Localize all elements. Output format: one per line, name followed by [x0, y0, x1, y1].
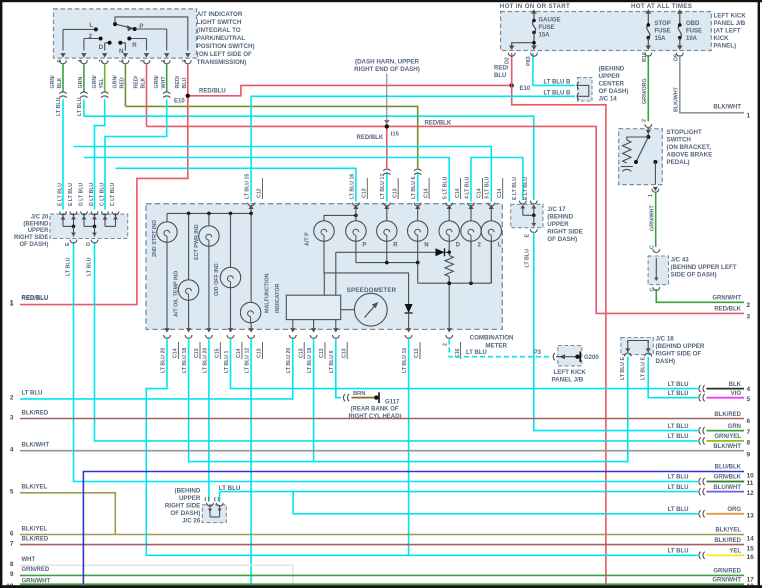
- svg-text:BLU/BLK: BLU/BLK: [715, 465, 742, 471]
- svg-text:BLK/YEL: BLK/YEL: [22, 526, 48, 532]
- svg-text:LT BLU: LT BLU: [668, 434, 689, 440]
- svg-text:7: 7: [747, 429, 751, 436]
- svg-text:E10: E10: [174, 99, 185, 105]
- svg-text:C13: C13: [341, 348, 347, 358]
- svg-text:RIGHT SIDE: RIGHT SIDE: [165, 502, 200, 509]
- svg-text:OF DASH): OF DASH): [19, 242, 48, 248]
- svg-text:7: 7: [99, 59, 105, 62]
- svg-text:GRN/: GRN/: [154, 75, 160, 89]
- svg-text:RED/BLK: RED/BLK: [425, 121, 452, 127]
- svg-text:J/C 17: J/C 17: [547, 206, 566, 213]
- svg-text:FUSE: FUSE: [655, 29, 671, 35]
- svg-text:OF DASH): OF DASH): [170, 510, 200, 517]
- svg-text:(DASH HARN, UPPER: (DASH HARN, UPPER: [355, 59, 419, 66]
- svg-text:LT BLU: LT BLU: [65, 257, 71, 276]
- svg-text:RIGHT SIDE: RIGHT SIDE: [14, 235, 48, 241]
- svg-text:J/C 20: J/C 20: [31, 214, 49, 220]
- svg-text:UPPER: UPPER: [179, 495, 201, 502]
- svg-text:GAUGE: GAUGE: [539, 18, 561, 24]
- svg-text:E LT BLU: E LT BLU: [523, 177, 529, 200]
- svg-text:ABOVE BRAKE: ABOVE BRAKE: [667, 152, 713, 159]
- svg-text:LT BLU: LT BLU: [56, 97, 62, 116]
- svg-text:PANEL J/B: PANEL J/B: [552, 377, 584, 384]
- svg-text:C13: C13: [362, 188, 368, 198]
- svg-text:RED/: RED/: [175, 75, 181, 88]
- svg-text:GRN/WHT: GRN/WHT: [712, 577, 741, 583]
- svg-text:LT BLU 19: LT BLU 19: [307, 348, 313, 373]
- svg-text:LT BLU: LT BLU: [668, 475, 689, 481]
- svg-text:D: D: [456, 242, 461, 248]
- svg-text:C13: C13: [319, 348, 325, 358]
- svg-text:OF DASH): OF DASH): [547, 236, 577, 243]
- svg-text:C13: C13: [257, 348, 263, 358]
- svg-text:B10: B10: [642, 52, 648, 62]
- svg-text:GRN/: GRN/: [92, 75, 98, 89]
- svg-text:LT BLU: LT BLU: [219, 485, 241, 492]
- svg-text:RIGHT SIDE OF: RIGHT SIDE OF: [656, 351, 702, 358]
- svg-text:RED/BLU: RED/BLU: [22, 296, 49, 302]
- svg-text:DASH): DASH): [656, 358, 676, 365]
- svg-text:LT BLU 20: LT BLU 20: [160, 348, 166, 373]
- svg-text:13: 13: [747, 512, 755, 519]
- svg-text:(INTEGRAL TO: (INTEGRAL TO: [197, 27, 241, 34]
- svg-text:LT BLU: LT BLU: [86, 257, 92, 276]
- svg-text:BLK/RED: BLK/RED: [714, 538, 741, 544]
- svg-text:G200: G200: [584, 355, 599, 361]
- svg-text:LT BLU 15: LT BLU 15: [245, 174, 251, 199]
- svg-text:C15: C15: [215, 348, 221, 358]
- svg-text:LT BLU: LT BLU: [668, 424, 689, 430]
- svg-text:C12: C12: [257, 188, 263, 198]
- svg-text:SWITCH: SWITCH: [667, 137, 692, 144]
- svg-text:I15: I15: [391, 132, 400, 138]
- svg-text:STOPLIGHT: STOPLIGHT: [667, 129, 703, 136]
- svg-text:VIO: VIO: [731, 391, 742, 397]
- svg-text:ORG: ORG: [727, 507, 741, 513]
- svg-text:C13: C13: [392, 188, 398, 198]
- svg-text:R: R: [393, 242, 398, 248]
- svg-text:5: 5: [120, 59, 126, 62]
- svg-text:COMBINATION: COMBINATION: [470, 335, 514, 342]
- svg-text:3 LT BLU: 3 LT BLU: [485, 176, 491, 199]
- svg-text:8: 8: [10, 561, 14, 568]
- svg-text:LT BLU: LT BLU: [524, 249, 530, 268]
- svg-text:BLK/WHT: BLK/WHT: [673, 86, 679, 112]
- svg-text:CENTER: CENTER: [599, 80, 625, 87]
- svg-text:RED/: RED/: [494, 66, 509, 72]
- svg-text:(BEHIND: (BEHIND: [599, 65, 625, 72]
- svg-text:HOT IN ON OR START: HOT IN ON OR START: [500, 3, 570, 10]
- svg-text:9: 9: [747, 452, 751, 459]
- svg-text:14: 14: [747, 536, 755, 543]
- svg-text:1: 1: [161, 59, 167, 62]
- svg-text:G117: G117: [385, 399, 400, 405]
- svg-text:GRN: GRN: [728, 424, 741, 430]
- svg-text:(ON LEFT SIDE OF: (ON LEFT SIDE OF: [197, 51, 252, 58]
- svg-text:4 LT BLU: 4 LT BLU: [464, 176, 470, 199]
- svg-text:LT BLU 20: LT BLU 20: [202, 348, 208, 373]
- svg-text:SIDE OF DASH): SIDE OF DASH): [671, 272, 717, 279]
- svg-text:16: 16: [747, 554, 755, 561]
- svg-text:LEFT KICK: LEFT KICK: [554, 369, 587, 376]
- svg-text:GRN/RED: GRN/RED: [713, 569, 741, 575]
- svg-text:E LT BLU: E LT BLU: [57, 183, 63, 206]
- svg-text:LT BLU: LT BLU: [22, 391, 43, 397]
- svg-text:P: P: [362, 242, 366, 248]
- svg-text:BLK/WHT: BLK/WHT: [22, 443, 50, 449]
- svg-text:LT BLU B: LT BLU B: [544, 80, 572, 86]
- svg-text:MALFUNCTION: MALFUNCTION: [265, 273, 271, 313]
- svg-text:3: 3: [10, 414, 14, 421]
- svg-text:D LT BLU: D LT BLU: [78, 183, 84, 206]
- svg-text:1: 1: [648, 194, 654, 197]
- svg-text:10: 10: [747, 473, 755, 480]
- svg-text:GRN/WHT: GRN/WHT: [649, 205, 655, 231]
- svg-text:OF DASH): OF DASH): [599, 88, 629, 95]
- svg-text:C14: C14: [423, 188, 429, 198]
- svg-text:ECT PWR IND: ECT PWR IND: [194, 224, 200, 260]
- svg-text:OBD: OBD: [686, 21, 700, 27]
- svg-text:UPPER: UPPER: [28, 228, 49, 234]
- svg-text:15A: 15A: [539, 33, 551, 39]
- svg-text:6: 6: [57, 59, 63, 62]
- svg-text:5: 5: [747, 396, 751, 403]
- svg-text:GRN/: GRN/: [50, 75, 56, 89]
- svg-text:LT BLU E: LT BLU E: [620, 357, 626, 380]
- svg-text:C13: C13: [414, 348, 420, 358]
- svg-text:GRN/BLK: GRN/BLK: [714, 475, 742, 481]
- svg-text:LT BLU: LT BLU: [77, 97, 83, 116]
- svg-text:LT BLU: LT BLU: [466, 350, 487, 356]
- svg-text:1: 1: [747, 113, 751, 120]
- svg-text:GRN/WHT: GRN/WHT: [712, 295, 741, 301]
- svg-text:(BEHIND: (BEHIND: [175, 487, 201, 494]
- svg-text:BLK/RED: BLK/RED: [22, 536, 49, 542]
- svg-text:BRN: BRN: [353, 391, 366, 397]
- svg-text:BLK/RED: BLK/RED: [714, 412, 741, 418]
- svg-text:UPPER: UPPER: [599, 73, 621, 80]
- svg-text:E10: E10: [520, 86, 531, 92]
- svg-text:RIGHT END OF DASH): RIGHT END OF DASH): [354, 66, 420, 73]
- svg-text:L: L: [89, 22, 93, 29]
- svg-text:LT BLU: LT BLU: [668, 382, 689, 388]
- svg-text:D LT BLU: D LT BLU: [89, 183, 95, 206]
- svg-text:FUSE: FUSE: [539, 25, 555, 31]
- svg-text:BLK/YEL: BLK/YEL: [22, 485, 48, 491]
- svg-text:5: 5: [10, 489, 14, 496]
- svg-text:WHT: WHT: [22, 557, 36, 563]
- svg-text:1: 1: [10, 300, 14, 307]
- svg-text:PANEL): PANEL): [714, 43, 737, 50]
- svg-text:2: 2: [10, 395, 14, 402]
- svg-text:PANEL J/B: PANEL J/B: [714, 20, 746, 27]
- svg-text:BLK/WHT: BLK/WHT: [713, 444, 741, 450]
- svg-text:GRN/RED: GRN/RED: [22, 567, 50, 573]
- svg-text:LT BLU E: LT BLU E: [640, 357, 646, 380]
- svg-text:RED/BLK: RED/BLK: [357, 135, 384, 141]
- svg-text:INDICATOR: INDICATOR: [275, 283, 281, 313]
- svg-text:(BEHIND: (BEHIND: [23, 221, 49, 227]
- svg-text:BLK/YEL: BLK/YEL: [715, 528, 741, 534]
- svg-text:RED/BLU: RED/BLU: [199, 88, 226, 94]
- svg-text:A/T INDICATOR: A/T INDICATOR: [197, 11, 243, 18]
- svg-text:TRANSMISSION): TRANSMISSION): [197, 59, 247, 66]
- svg-text:A/T P: A/T P: [305, 232, 311, 246]
- svg-text:STOP: STOP: [655, 21, 671, 27]
- svg-text:C14: C14: [173, 348, 179, 358]
- svg-text:E LT BLU: E LT BLU: [68, 183, 74, 206]
- svg-text:LT BLU 18: LT BLU 18: [182, 348, 188, 373]
- svg-text:FUSE: FUSE: [686, 29, 702, 35]
- svg-text:C14: C14: [236, 348, 242, 358]
- svg-text:BLK/WHT: BLK/WHT: [713, 104, 741, 110]
- svg-text:2: 2: [89, 33, 93, 40]
- svg-text:LIGHT SWITCH: LIGHT SWITCH: [197, 19, 242, 26]
- svg-text:LT BLU B: LT BLU B: [544, 91, 572, 97]
- svg-text:GRN/ORG: GRN/ORG: [642, 78, 648, 104]
- svg-text:(ON BRACKET,: (ON BRACKET,: [667, 144, 712, 151]
- svg-text:J/C 43: J/C 43: [671, 257, 690, 264]
- svg-text:2ND STRT IND: 2ND STRT IND: [152, 220, 158, 257]
- svg-text:BLU/WHT: BLU/WHT: [713, 485, 741, 491]
- svg-text:LT BLU 20: LT BLU 20: [286, 348, 292, 373]
- svg-text:C13: C13: [298, 348, 304, 358]
- svg-text:C: C: [650, 288, 656, 292]
- svg-text:LT BLU 17: LT BLU 17: [380, 174, 386, 199]
- svg-text:D: D: [86, 242, 92, 246]
- svg-text:RED/BLK: RED/BLK: [714, 306, 741, 312]
- svg-text:LT BLU 12: LT BLU 12: [245, 348, 251, 373]
- svg-text:15A: 15A: [655, 36, 667, 42]
- svg-text:PARK/NEUTRAL: PARK/NEUTRAL: [197, 35, 246, 42]
- svg-text:6: 6: [10, 530, 14, 537]
- svg-text:LEFT KICK: LEFT KICK: [714, 13, 747, 20]
- svg-text:(BEHIND UPPER: (BEHIND UPPER: [656, 343, 705, 350]
- svg-text:11: 11: [747, 480, 754, 487]
- svg-text:3: 3: [182, 59, 188, 62]
- svg-text:YEL: YEL: [729, 549, 741, 555]
- svg-text:LT BLU: LT BLU: [668, 549, 689, 555]
- svg-text:BLU: BLU: [494, 73, 506, 79]
- svg-text:LT BLU 1: LT BLU 1: [224, 351, 230, 373]
- svg-text:LT BLU 6: LT BLU 6: [329, 351, 335, 373]
- svg-text:J/C 14: J/C 14: [599, 95, 618, 102]
- svg-text:C LT BLU: C LT BLU: [99, 183, 105, 206]
- svg-text:KICK: KICK: [714, 35, 730, 42]
- svg-text:3: 3: [747, 314, 751, 321]
- svg-text:C14: C14: [477, 188, 483, 198]
- svg-text:PEDAL): PEDAL): [667, 159, 690, 166]
- svg-text:D: D: [99, 44, 104, 51]
- svg-text:LT BLU: LT BLU: [668, 507, 689, 513]
- svg-text:2: 2: [747, 302, 751, 309]
- svg-text:J/C 18: J/C 18: [656, 336, 675, 343]
- svg-text:N: N: [424, 242, 428, 248]
- svg-text:4: 4: [747, 386, 751, 393]
- svg-text:A/T OIL TEMP IND: A/T OIL TEMP IND: [174, 271, 180, 317]
- svg-text:7: 7: [10, 540, 14, 547]
- svg-text:LT BLU 15: LT BLU 15: [402, 348, 408, 373]
- svg-text:LT BLU: LT BLU: [668, 485, 689, 491]
- svg-text:P: P: [139, 23, 143, 30]
- svg-text:BLK: BLK: [729, 382, 742, 388]
- svg-text:LT BLU 6: LT BLU 6: [411, 177, 417, 199]
- svg-text:METER: METER: [485, 342, 507, 349]
- svg-text:10A: 10A: [686, 36, 698, 42]
- svg-text:C14: C14: [455, 188, 461, 198]
- svg-text:J/C 26: J/C 26: [182, 517, 201, 524]
- svg-text:RIGHT SIDE: RIGHT SIDE: [547, 228, 582, 235]
- svg-text:15: 15: [747, 546, 755, 553]
- svg-text:L: L: [498, 242, 502, 248]
- svg-text:(BEHIND UPPER LEFT: (BEHIND UPPER LEFT: [671, 264, 737, 271]
- svg-text:BLK/RED: BLK/RED: [22, 410, 49, 416]
- svg-text:P83: P83: [526, 56, 532, 66]
- svg-text:D9: D9: [673, 54, 679, 61]
- svg-text:5 LT BLU: 5 LT BLU: [443, 176, 449, 199]
- svg-text:LT BLU: LT BLU: [668, 391, 689, 397]
- svg-text:2: 2: [642, 119, 648, 122]
- svg-text:4: 4: [10, 447, 14, 454]
- svg-text:(BEHIND: (BEHIND: [547, 213, 573, 220]
- svg-text:POSITION SWITCH): POSITION SWITCH): [197, 43, 255, 50]
- svg-text:6: 6: [747, 418, 751, 425]
- svg-text:9: 9: [10, 571, 14, 578]
- svg-text:2: 2: [443, 343, 449, 346]
- svg-text:LT BLU 16: LT BLU 16: [349, 174, 355, 199]
- svg-text:UPPER: UPPER: [547, 221, 569, 228]
- svg-text:8: 8: [747, 439, 751, 446]
- svg-text:R: R: [132, 42, 137, 49]
- svg-text:C14: C14: [497, 188, 503, 198]
- svg-text:C: C: [650, 245, 656, 249]
- svg-text:GRN/YEL: GRN/YEL: [714, 434, 741, 440]
- svg-text:SPEEDOMETER: SPEEDOMETER: [347, 287, 397, 294]
- svg-text:E: E: [65, 242, 71, 246]
- svg-text:D2: D2: [505, 57, 511, 64]
- svg-text:RED/: RED/: [134, 75, 140, 88]
- svg-text:(REAR BANK OF: (REAR BANK OF: [351, 407, 399, 413]
- svg-text:C13: C13: [194, 348, 200, 358]
- svg-text:GRN/: GRN/: [113, 75, 119, 89]
- svg-text:12: 12: [747, 490, 755, 497]
- svg-text:(AT LEFT: (AT LEFT: [714, 28, 741, 35]
- svg-text:E LT BLU: E LT BLU: [512, 177, 518, 200]
- svg-text:P3: P3: [534, 350, 542, 356]
- svg-text:E: E: [525, 234, 531, 238]
- svg-text:2: 2: [141, 59, 147, 62]
- svg-text:O/D OFF IND: O/D OFF IND: [214, 263, 220, 296]
- svg-text:C LT BLU: C LT BLU: [110, 183, 116, 206]
- svg-text:HOT AT ALL TIMES: HOT AT ALL TIMES: [631, 3, 692, 10]
